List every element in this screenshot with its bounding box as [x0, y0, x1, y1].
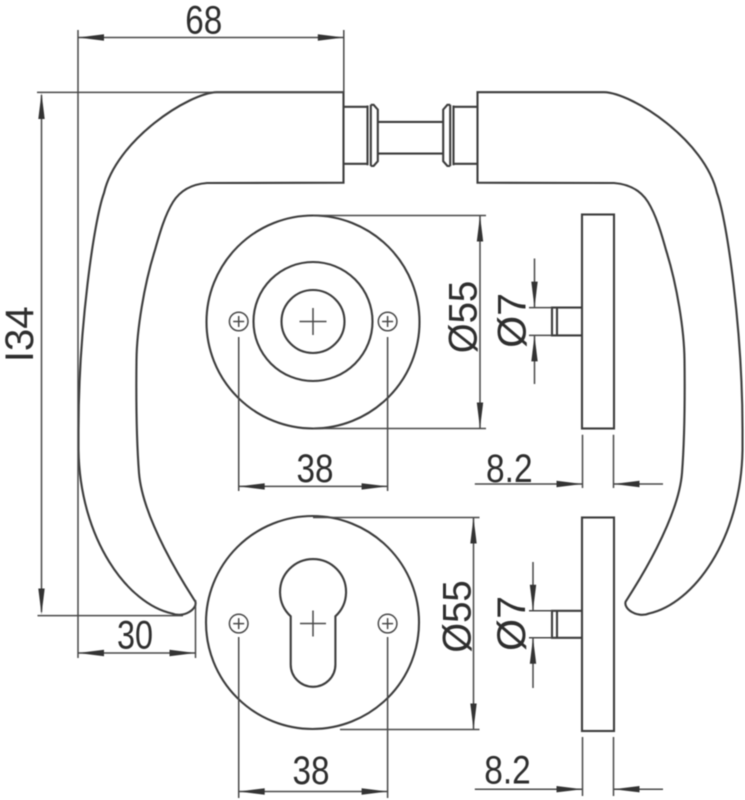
svg-text:Ø7: Ø7	[491, 293, 535, 348]
dim 38 lower	[239, 637, 388, 798]
upper rosette outer circle	[207, 216, 420, 429]
left collar ring	[371, 105, 378, 166]
dim 68	[78, 0, 344, 658]
left neck cylinder	[344, 105, 378, 166]
upper side-view pin	[552, 308, 582, 336]
upper rosette middle circle	[254, 262, 373, 381]
svg-text:Ø55: Ø55	[441, 281, 485, 354]
svg-text:38: 38	[293, 749, 330, 793]
dim 38 upper	[239, 337, 388, 491]
svg-text:30: 30	[117, 613, 153, 657]
right neck cylinder	[443, 105, 477, 166]
dim Ø7 lower	[490, 562, 552, 688]
svg-text:8.2: 8.2	[484, 749, 531, 793]
dim Ø55 lower	[313, 518, 480, 730]
left handle outline	[79, 92, 344, 615]
lever handle pair front view	[79, 92, 743, 615]
lower side-view pin	[552, 611, 582, 638]
dim 8.2 upper	[475, 435, 663, 491]
svg-text:68: 68	[185, 0, 222, 42]
dim 8.2 lower	[475, 737, 663, 796]
svg-text:Ø55: Ø55	[436, 580, 480, 653]
dim 30	[78, 600, 196, 658]
svg-text:38: 38	[297, 447, 334, 491]
spindle bar	[378, 122, 443, 154]
right collar ring	[443, 105, 450, 166]
dim Ø7 upper	[491, 259, 553, 385]
upper rosette center cross	[300, 308, 327, 335]
upper side-view plate	[582, 215, 614, 429]
right handle outline (mirror)	[478, 92, 743, 615]
lower rosette outer circle	[206, 516, 419, 729]
lower side-view plate	[582, 518, 614, 732]
svg-text:Ø7: Ø7	[490, 596, 534, 651]
upper left screw	[229, 312, 248, 331]
svg-text:I34: I34	[0, 306, 42, 362]
lower rosette center cross	[300, 611, 326, 637]
lower left screw	[229, 614, 248, 633]
svg-text:8.2: 8.2	[486, 447, 533, 491]
dim Ø55 upper	[313, 216, 486, 429]
euro profile cylinder hole	[280, 559, 346, 687]
upper rosette inner circle	[282, 290, 345, 353]
upper right screw	[378, 312, 397, 331]
lower right screw	[378, 614, 397, 633]
dim 134	[0, 92, 344, 615]
